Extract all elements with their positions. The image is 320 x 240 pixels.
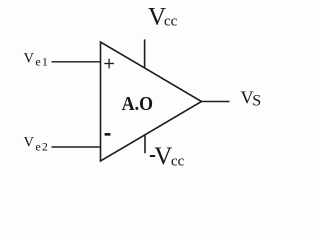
-Vcc supply lead <box>144 135 146 153</box>
wire input ve2 <box>52 146 101 148</box>
label ve1 <box>24 51 50 69</box>
svg-text:S: S <box>252 93 261 110</box>
pin + (non-inverting input sign) <box>104 59 114 69</box>
label vS (output) <box>241 88 262 110</box>
svg-text:A.O: A.O <box>122 93 153 115</box>
Vcc supply lead <box>144 39 146 67</box>
label Vcc <box>148 4 178 31</box>
svg-text:V: V <box>154 143 172 170</box>
wire output <box>202 101 230 103</box>
svg-text:e1: e1 <box>35 54 49 68</box>
pin - (inverting input sign) <box>105 133 111 136</box>
op-amp U1 <box>101 42 202 161</box>
svg-text:e2: e2 <box>35 139 49 153</box>
svg-text:cc: cc <box>171 153 185 169</box>
wire input ve1 <box>52 61 101 63</box>
svg-text:V: V <box>24 51 35 67</box>
label ve2 <box>24 135 50 154</box>
label -Vcc <box>150 143 185 170</box>
svg-text:cc: cc <box>164 14 178 30</box>
svg-text:V: V <box>24 135 35 151</box>
